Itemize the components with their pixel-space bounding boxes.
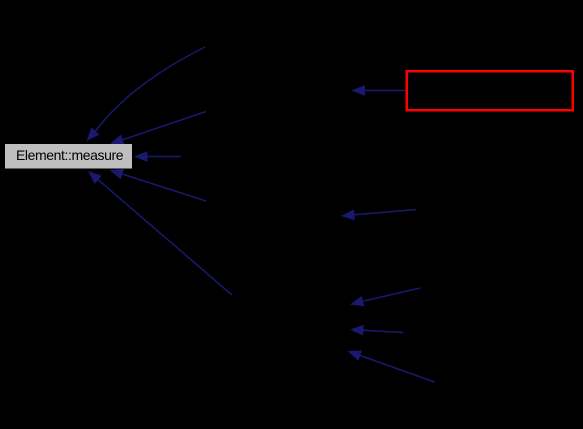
svg-text:Element::measure: Element::measure [16,147,124,163]
